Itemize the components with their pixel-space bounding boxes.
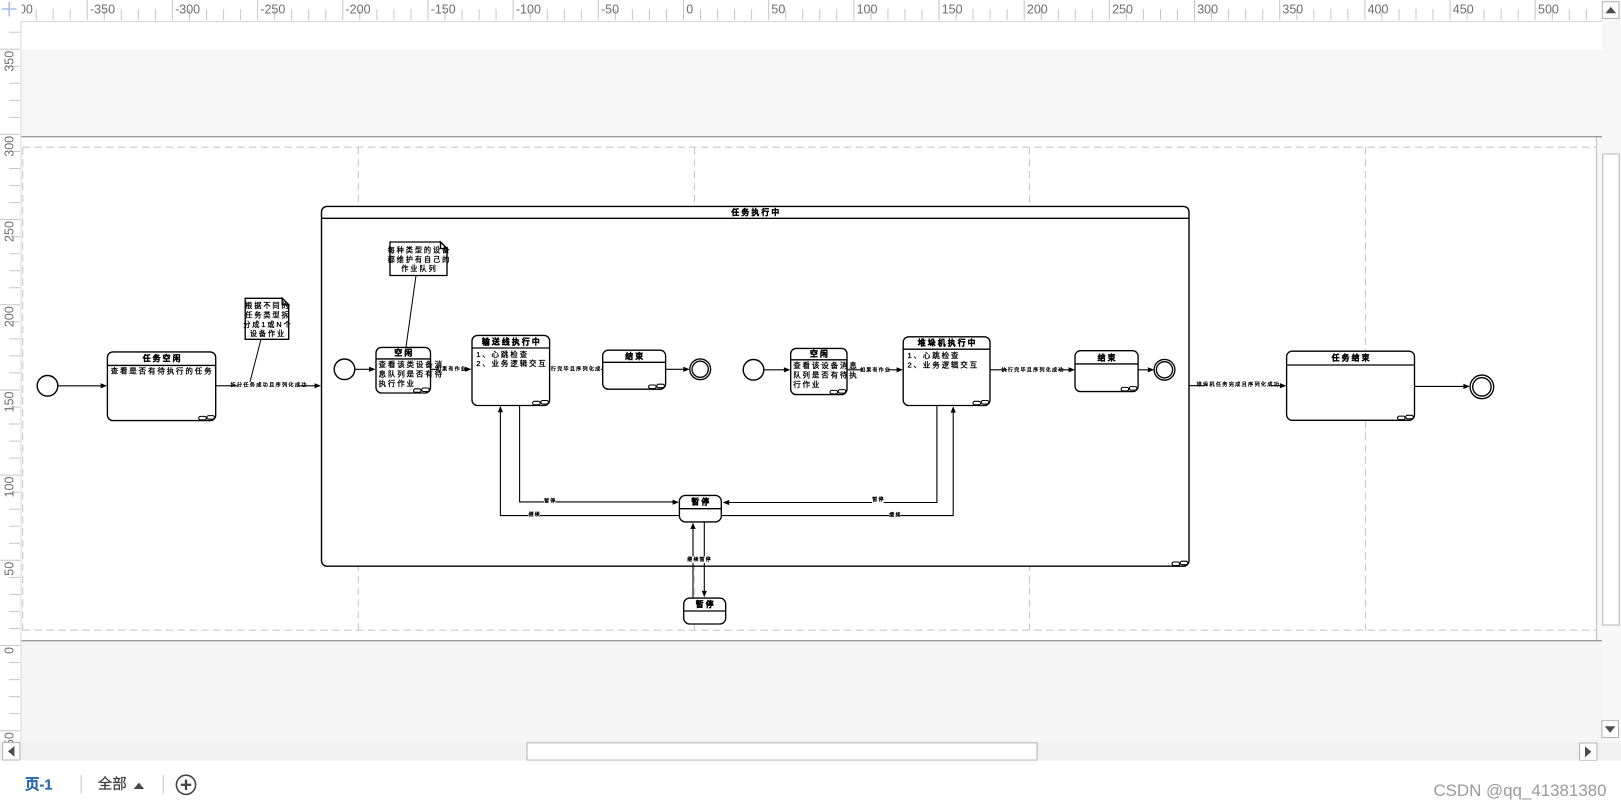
- page bottom boundary line: [21, 640, 1602, 642]
- svg-text:结束: 结束: [1097, 352, 1118, 362]
- transition: 堆垛机执行中 -> 结束2 label 执行完毕且序列化成功: [990, 369, 1069, 371]
- svg-text:2、业务逻辑交互: 2、业务逻辑交互: [476, 358, 547, 368]
- svg-text:CSDN @qq_41381380: CSDN @qq_41381380: [1433, 781, 1606, 800]
- svg-text:-350: -350: [90, 3, 115, 17]
- transition: 任务结束 -> final3: [1415, 385, 1464, 387]
- left ruler: [0, 22, 21, 751]
- transition: 任务空闲 -> 任务执行中 label 拆分任务成功且序列化成功: [216, 385, 315, 387]
- svg-text:350: 350: [3, 51, 17, 72]
- svg-text:-250: -250: [260, 3, 285, 17]
- svg-text:分成1或N个: 分成1或N个: [243, 320, 292, 329]
- svg-text:继续: 继续: [687, 556, 699, 563]
- page break dashed vertical 4: [1029, 147, 1031, 630]
- svg-text:查看是否有待执行的任务: 查看是否有待执行的任务: [111, 365, 214, 375]
- svg-text:200: 200: [3, 306, 17, 327]
- svg-text:堆垛机执行中: 堆垛机执行中: [918, 338, 978, 348]
- svg-text:拆分任务成功且序列化成功: 拆分任务成功且序列化成功: [230, 381, 307, 389]
- ruler corner origin cross: [2, 2, 17, 17]
- svg-text:行作业: 行作业: [793, 379, 821, 389]
- note1 connector line: [250, 339, 261, 383]
- page right edge line: [1596, 137, 1598, 640]
- svg-text:2、业务逻辑交互: 2、业务逻辑交互: [908, 359, 979, 369]
- svg-text:查看该设备消息: 查看该设备消息: [793, 360, 858, 370]
- horizontal scrollbar track: [0, 742, 1621, 760]
- note 每种类型的设备都维护有自己的作业队列: [388, 242, 452, 276]
- svg-text:0: 0: [686, 3, 693, 17]
- transition: 结束 -> final1: [666, 368, 684, 370]
- separator 1: [80, 775, 82, 794]
- svg-text:150: 150: [3, 391, 17, 412]
- svg-text:根据不同的: 根据不同的: [245, 301, 290, 310]
- transition: 任务执行中 -> 任务结束 label 堆垛机任务完成且序列化成功: [1189, 385, 1280, 387]
- state 任务结束: [1287, 351, 1415, 420]
- horizontal scrollbar left button: [3, 743, 20, 760]
- svg-text:暂停: 暂停: [699, 556, 711, 563]
- svg-text:空闲: 空闲: [394, 348, 414, 358]
- svg-text:息队列是否有待: 息队列是否有待: [379, 369, 444, 379]
- page top boundary line: [21, 136, 1602, 138]
- svg-text:堆垛机任务完成且序列化成功: 堆垛机任务完成且序列化成功: [1197, 380, 1281, 388]
- transition: 暂停2 -> 暂停 label 继续: [692, 528, 694, 598]
- svg-text:350: 350: [1282, 3, 1303, 17]
- svg-text:100: 100: [857, 3, 878, 17]
- svg-text:-100: -100: [516, 3, 541, 17]
- initial state 1 (start circle): [37, 376, 58, 397]
- svg-text:队列是否有待执: 队列是否有待执: [793, 370, 858, 380]
- state 堆垛机执行中: [903, 337, 990, 406]
- state 任务空闲: [107, 352, 215, 421]
- svg-text:任务类型拆: 任务类型拆: [245, 311, 290, 320]
- svg-text:400: 400: [1368, 3, 1389, 17]
- initial state 3 (start circle, stacker flow): [743, 360, 764, 381]
- page break dashed vertical 5: [1365, 147, 1367, 630]
- vertical scrollbar up button: [1602, 2, 1619, 19]
- svg-text:任务空闲: 任务空闲: [142, 353, 183, 363]
- vertical scrollbar track: [1602, 0, 1621, 742]
- svg-text:执行完毕且序列化成功: 执行完毕且序列化成功: [1002, 366, 1065, 373]
- transition: 结束2 -> final2: [1138, 369, 1148, 371]
- note2 connector line: [406, 276, 416, 348]
- page break dashed vertical 1: [22, 147, 24, 630]
- transition: start2 -> 空闲(输送线): [355, 368, 370, 370]
- svg-text:50: 50: [3, 562, 17, 576]
- state 结束 (conveyor): [603, 350, 666, 389]
- svg-text:暂停: 暂停: [544, 497, 556, 504]
- svg-text:450: 450: [1453, 3, 1474, 17]
- vertical scrollbar down button: [1602, 721, 1619, 738]
- horizontal scrollbar thumb: [527, 743, 1037, 760]
- svg-text:查看该类设备消: 查看该类设备消: [379, 359, 444, 369]
- top ruler: [0, 0, 1602, 22]
- svg-text:-150: -150: [431, 3, 456, 17]
- svg-text:250: 250: [3, 221, 17, 242]
- page break dashed vertical 2: [357, 147, 359, 630]
- svg-text:继续: 继续: [889, 512, 901, 519]
- svg-text:-300: -300: [175, 3, 200, 17]
- svg-text:300: 300: [1197, 3, 1218, 17]
- svg-text:空闲: 空闲: [810, 349, 830, 359]
- svg-text:100: 100: [3, 477, 17, 498]
- svg-text:继续: 继续: [529, 511, 541, 518]
- svg-text:1、心跳检查: 1、心跳检查: [476, 349, 529, 359]
- svg-text:任务执行中: 任务执行中: [730, 207, 781, 217]
- page break dashed top: [23, 146, 1597, 148]
- svg-text:执行完毕且序列化成功: 执行完毕且序列化成功: [545, 365, 608, 372]
- svg-text:暂停: 暂停: [691, 497, 711, 507]
- svg-text:200: 200: [1027, 3, 1048, 17]
- final state 1 (double circle): [690, 359, 711, 380]
- state 暂停 (outside container): [684, 598, 726, 624]
- svg-text:输送线执行中: 输送线执行中: [482, 336, 542, 346]
- separator 2: [162, 775, 164, 794]
- svg-text:50: 50: [771, 3, 785, 17]
- svg-text:结束: 结束: [624, 351, 645, 361]
- svg-text:每种类型的设备: 每种类型的设备: [388, 245, 452, 254]
- transition: 空闲 -> 输送线执行中 label 如果有作业: [431, 368, 466, 370]
- svg-text:150: 150: [942, 3, 963, 17]
- transition: start1 -> 任务空闲: [58, 385, 101, 387]
- transition: 输送线执行中 -> 结束 label 执行完毕且序列化成功: [550, 368, 597, 370]
- composite state 任务执行中 (container): [322, 206, 1190, 566]
- note 根据不同的任务类型拆分成1或N个设备作业: [243, 298, 292, 339]
- svg-text:页-1: 页-1: [25, 776, 52, 793]
- vertical scrollbar thumb: [1603, 154, 1619, 625]
- svg-text:-200: -200: [346, 3, 371, 17]
- final state 3 (double circle): [1470, 375, 1494, 399]
- svg-text:执行作业: 执行作业: [379, 378, 416, 388]
- transition: 空闲2 -> 堆垛机执行中 label 如果有作业: [847, 369, 897, 371]
- state 输送线执行中: [472, 335, 550, 405]
- initial state 2 (start circle, conveyor flow): [334, 359, 355, 380]
- add page button (circle plus): [176, 775, 195, 794]
- transition: 暂停 -> 输送线执行中 label 继续: [500, 412, 679, 516]
- horizontal scrollbar right button: [1580, 743, 1597, 760]
- state 空闲 (conveyor): [376, 347, 444, 393]
- bottom bar background: [0, 761, 1621, 809]
- svg-text:300: 300: [3, 136, 17, 157]
- transition: 暂停 -> 暂停2 label 暂停: [703, 522, 705, 591]
- transition: 输送线执行中 -> 暂停 label 暂停: [520, 406, 673, 502]
- svg-text:全部: 全部: [98, 775, 127, 793]
- svg-text:暂停: 暂停: [696, 599, 716, 609]
- svg-text:0: 0: [3, 647, 17, 654]
- svg-text:作业队列: 作业队列: [401, 264, 437, 273]
- transition: 堆垛机执行中 -> 暂停 label 暂停: [728, 406, 937, 503]
- final state 2 (double circle): [1154, 359, 1175, 380]
- transition: start3 -> 空闲(堆垛机): [764, 369, 784, 371]
- page break dashed bottom: [23, 629, 1597, 631]
- transition: 暂停 -> 堆垛机执行中 label 继续: [721, 412, 953, 516]
- svg-text:都维护有自己的: 都维护有自己的: [388, 255, 452, 264]
- svg-text:500: 500: [1538, 3, 1559, 17]
- svg-text:1、心跳检查: 1、心跳检查: [908, 350, 961, 360]
- state 结束 (stacker): [1075, 351, 1138, 392]
- svg-text:暂停: 暂停: [872, 496, 884, 503]
- svg-text:任务结束: 任务结束: [1331, 352, 1372, 362]
- state 空闲 (stacker): [791, 348, 859, 394]
- svg-text:250: 250: [1112, 3, 1133, 17]
- page break dashed vertical 3: [693, 147, 695, 630]
- svg-text:如果有作业: 如果有作业: [860, 366, 891, 373]
- state 暂停 (inside container): [679, 495, 721, 522]
- svg-text:-50: -50: [601, 3, 619, 17]
- svg-text:设备作业: 设备作业: [250, 329, 286, 338]
